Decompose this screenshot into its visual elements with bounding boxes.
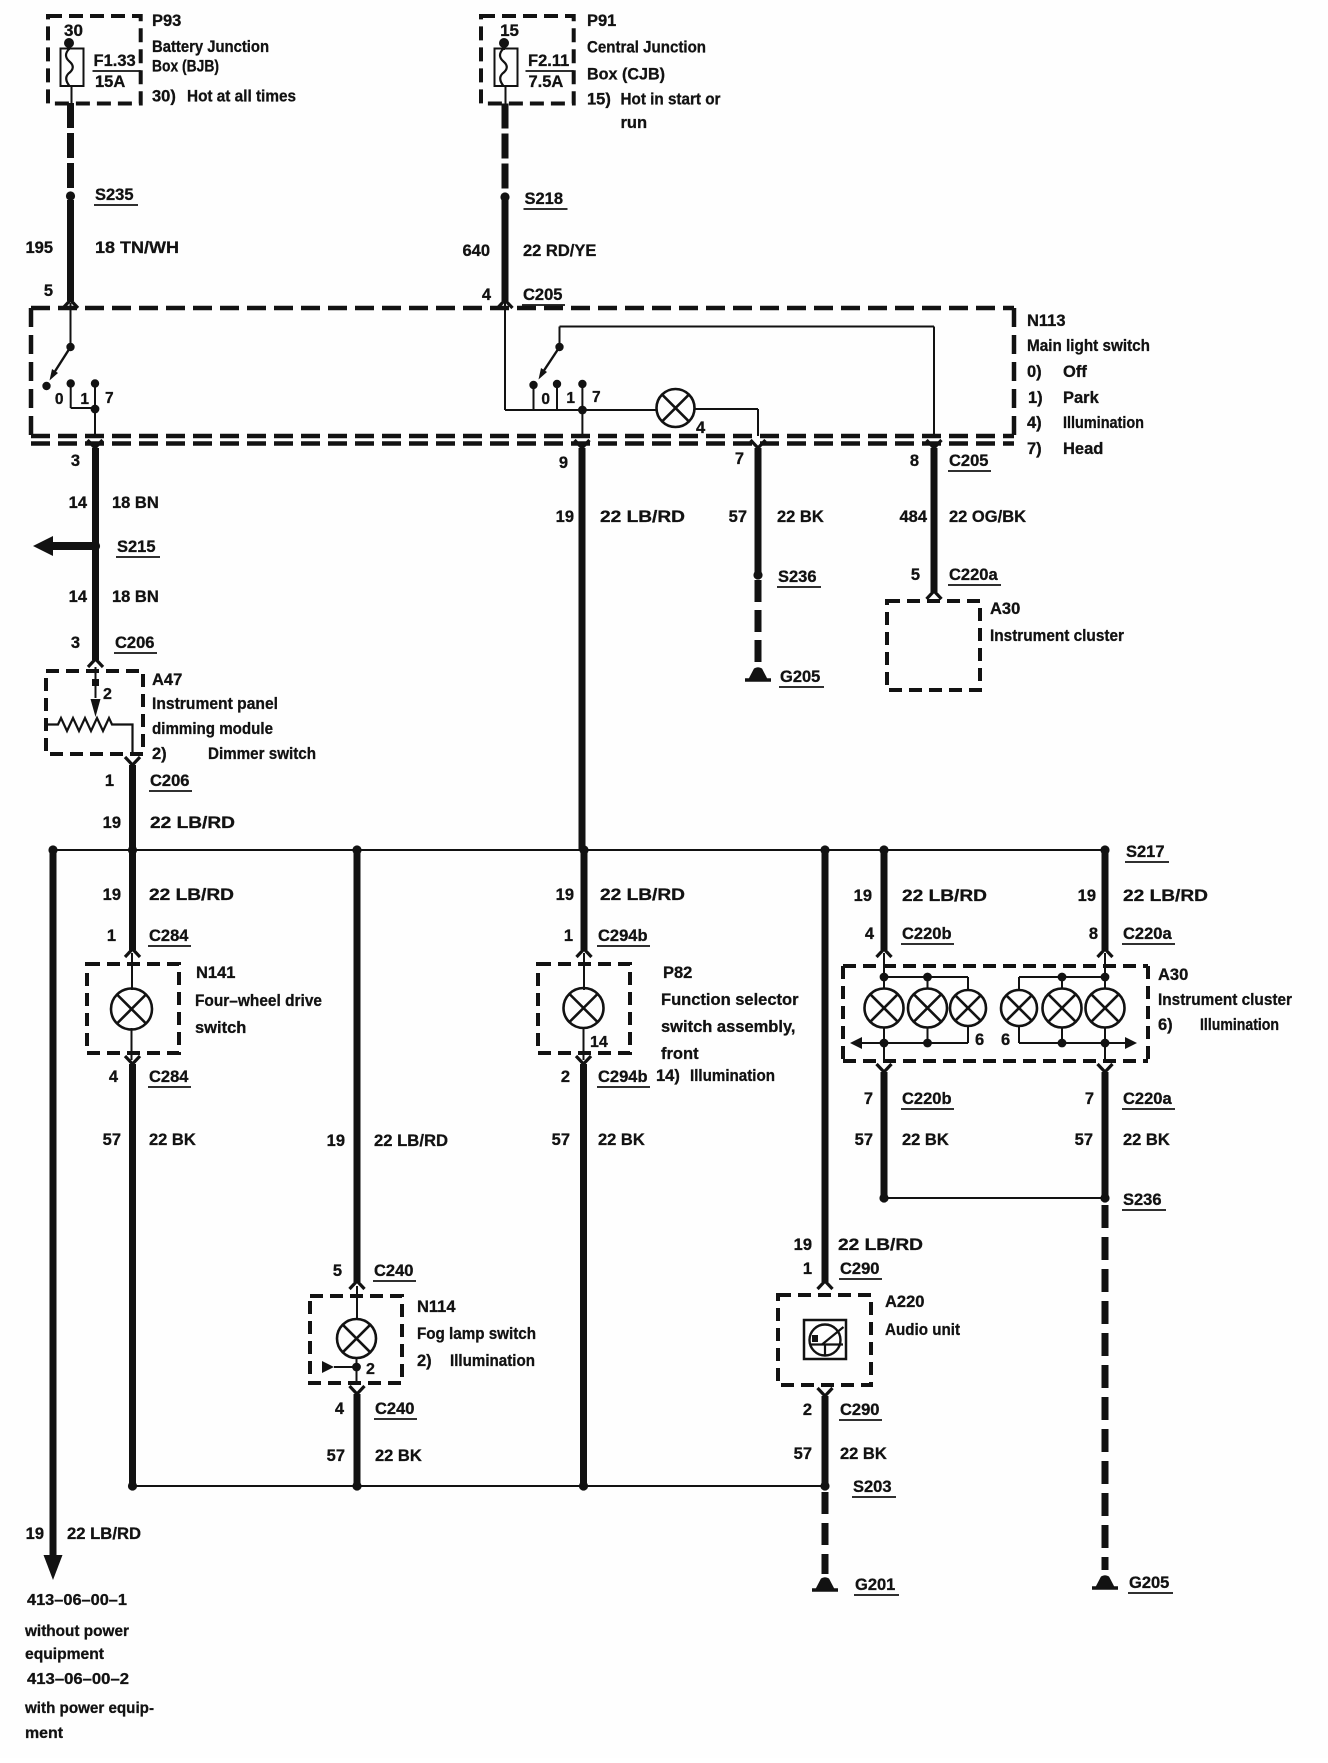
connector C284 label (top) — [148, 927, 191, 946]
wire: A30 pin 7 C220b to S236 (57 22 BK) — [881, 1072, 888, 1198]
wire label 57 22 BK (C220b) — [855, 1131, 949, 1149]
switch blade (left, headlamp switch pole 1) — [50, 347, 71, 381]
svg-text:19: 19 — [327, 1132, 345, 1150]
wire: blade common to N113 pin 8 — [560, 327, 935, 437]
junction: bus to P82 branch — [579, 845, 588, 854]
svg-text:22 LB/RD: 22 LB/RD — [600, 886, 685, 904]
wire: fuse F2.11 to N113 pin 4 (640 22 RD/YE) — [498, 104, 513, 309]
pin 9 exit connector — [559, 440, 590, 472]
wire: bus to A220 (19 22 LB/RD) — [818, 850, 833, 1289]
svg-text:22 BK: 22 BK — [902, 1131, 949, 1149]
svg-text:22 BK: 22 BK — [149, 1131, 196, 1149]
wire: S236 to ground G205 (dashed) — [755, 580, 762, 662]
splice S217 — [1100, 845, 1109, 854]
svg-text:22 BK: 22 BK — [840, 1445, 887, 1463]
svg-text:18 BN: 18 BN — [112, 588, 159, 606]
node pin 2 with arrow (N114) — [322, 1361, 375, 1378]
wire: bus to A30 pin 8 (19 22 LB/RD) — [1098, 850, 1113, 957]
svg-text:A220: A220 — [885, 1293, 924, 1311]
svg-text:14: 14 — [69, 494, 88, 512]
svg-text:Central Junction: Central Junction — [587, 39, 706, 57]
connector C220b label (bottom) — [901, 1090, 954, 1109]
svg-text:7: 7 — [864, 1090, 873, 1108]
wire label 19 22 LB/RD (N141) — [103, 886, 234, 904]
label A47 Instrument panel dimming module — [152, 671, 316, 763]
svg-text:A47: A47 — [152, 671, 182, 689]
svg-text:9: 9 — [559, 454, 568, 472]
wire: lamp 4 to N113 pin 7 — [695, 409, 759, 436]
wire label 57 22 BK (N114) — [327, 1447, 422, 1465]
wire: bus to N114 (19 22 LB/RD) — [350, 850, 365, 1289]
wire: S236 to ground G205 (dashed, lower) — [1102, 1205, 1109, 1570]
contact 1 (left switch) — [67, 379, 90, 408]
ground G205 (lower) — [1092, 1575, 1118, 1588]
svg-text:7: 7 — [105, 390, 114, 407]
svg-text:with power equip-: with power equip- — [24, 1700, 154, 1717]
svg-text:1: 1 — [105, 772, 114, 790]
svg-text:19: 19 — [103, 886, 121, 904]
connector C290 exit (pin 2) — [803, 1388, 833, 1419]
lamp (N114 illumination) — [337, 1286, 376, 1383]
wire label 57 22 BK (N141) — [103, 1131, 196, 1149]
wire: N113 pin 3 to A47 (14 18 BN) — [92, 448, 99, 660]
splice S236 (upper) — [753, 570, 762, 579]
wire label 57 22 BK (pin 7) — [729, 508, 824, 526]
label A30 Instrument cluster illumination — [1158, 966, 1293, 1034]
svg-text:14: 14 — [69, 588, 88, 606]
svg-text:A30: A30 — [1158, 966, 1188, 984]
svg-text:4: 4 — [696, 419, 706, 437]
svg-text:C290: C290 — [840, 1401, 879, 1419]
svg-text:Park: Park — [1063, 389, 1100, 407]
label N113 Main light switch positions — [1027, 312, 1150, 458]
svg-text:4: 4 — [482, 286, 492, 304]
svg-text:2: 2 — [366, 1361, 375, 1378]
connector C284 exit (pin 4) — [109, 1056, 140, 1086]
bus wire: splice S217 distribution — [53, 849, 1105, 851]
pin 30 terminal — [64, 21, 83, 48]
connector C205 label (pin 4) — [522, 286, 565, 305]
svg-text:Illumination: Illumination — [1063, 414, 1144, 432]
svg-text:3: 3 — [71, 452, 80, 470]
contact 0 (left switch) — [42, 382, 63, 408]
svg-text:Head: Head — [1063, 440, 1103, 458]
wire label 57 22 BK (A220) — [794, 1445, 887, 1463]
connector C294b label (top) — [597, 927, 650, 946]
junction: bus to A220 branch — [820, 845, 829, 854]
svg-text:Main light switch: Main light switch — [1027, 337, 1150, 355]
potentiometer wiper arrow (pin 2) — [91, 667, 113, 717]
splice S235 — [66, 191, 75, 200]
svg-text:1: 1 — [564, 927, 573, 945]
contact 0 (right switch) — [529, 381, 550, 410]
svg-text:640: 640 — [462, 242, 490, 260]
svg-text:dimming module: dimming module — [152, 720, 273, 738]
cluster lamp 6 — [1086, 989, 1125, 1028]
main light switch N113 (dashed box) — [31, 308, 1014, 444]
wire label 14 18 BN (upper) — [69, 494, 159, 512]
pin 7 label (C220b) — [864, 1090, 873, 1108]
label P93 Battery Junction Box — [152, 12, 296, 106]
wire: A47 pin 1 to splice S217 bus (19 22 LB/RD) — [129, 765, 136, 850]
svg-text:22 RD/YE: 22 RD/YE — [523, 242, 596, 260]
connector C220a label (bottom box) — [1122, 925, 1175, 944]
svg-text:413–06–00–1: 413–06–00–1 — [27, 1592, 127, 1609]
svg-text:G201: G201 — [855, 1576, 895, 1594]
pin 15 terminal — [499, 21, 519, 48]
pin 8 label (C220a) — [1089, 925, 1098, 943]
svg-text:C220b: C220b — [902, 1090, 952, 1108]
svg-text:C206: C206 — [150, 772, 189, 790]
svg-text:22 LB/RD: 22 LB/RD — [902, 887, 987, 905]
svg-text:7): 7) — [1027, 440, 1042, 458]
svg-text:Four–wheel drive: Four–wheel drive — [195, 992, 322, 1010]
connector C294b exit (pin 2) — [561, 1056, 591, 1086]
svg-text:Hot at all times: Hot at all times — [187, 88, 296, 106]
connector C290 label (top) — [839, 1260, 882, 1279]
svg-text:30: 30 — [64, 21, 83, 40]
wire: N113 pin 8 to A30 (484 22 OG/BK) — [927, 448, 942, 599]
svg-text:22 LB/RD: 22 LB/RD — [838, 1236, 923, 1254]
ground G205 (upper) — [745, 667, 771, 680]
junction: N141 ground at bus — [128, 1481, 137, 1490]
wire: S236 tie line — [879, 1193, 1105, 1202]
wire: N113 pin 4 feed rail — [505, 301, 657, 410]
svg-text:57: 57 — [794, 1445, 812, 1463]
connector C240 label (top) — [373, 1262, 416, 1281]
wire: cluster lamps 1-3 return rail with arrow — [850, 1026, 968, 1049]
wire label 57 22 BK (C220a) — [1075, 1131, 1170, 1149]
svg-text:F1.33: F1.33 — [94, 52, 136, 70]
svg-text:8: 8 — [910, 452, 919, 470]
function selector switch P82 (dashed box) — [538, 964, 630, 1053]
svg-text:19: 19 — [556, 508, 574, 526]
label 6 (right lamp group) — [1001, 1031, 1010, 1049]
wire: bus to P82 (19 22 LB/RD) — [577, 850, 592, 957]
wire label 19 22 LB/RD (P82) — [556, 886, 685, 904]
svg-text:22 LB/RD: 22 LB/RD — [67, 1525, 141, 1543]
svg-text:C290: C290 — [840, 1260, 879, 1278]
svg-text:22 LB/RD: 22 LB/RD — [374, 1132, 448, 1150]
instrument cluster A30 (bottom dashed box) — [843, 966, 1148, 1061]
lamp 4 (N113 internal illumination) — [657, 389, 707, 437]
label N141 Four-wheel drive switch — [195, 964, 322, 1037]
label S217 — [1125, 843, 1169, 862]
svg-text:C220a: C220a — [949, 566, 998, 584]
svg-text:Illumination: Illumination — [690, 1067, 775, 1085]
svg-text:N114: N114 — [417, 1298, 456, 1316]
wire: N113 pin 7 to S236 (57 22 BK) — [755, 448, 762, 575]
svg-text:22 BK: 22 BK — [598, 1131, 645, 1149]
connector C205 label (pin 8) — [948, 452, 991, 471]
wire label 19 22 LB/RD (leftmost) — [26, 1525, 141, 1543]
label S236 (lower) — [1122, 1191, 1166, 1210]
pin 5 label (C220a) — [911, 566, 920, 584]
svg-text:S215: S215 — [117, 538, 156, 556]
svg-text:2: 2 — [561, 1068, 570, 1086]
label destination 413-06-00-1/2 — [24, 1592, 154, 1742]
svg-text:C220a: C220a — [1123, 1090, 1172, 1108]
svg-text:Box (CJB): Box (CJB) — [587, 66, 665, 84]
svg-text:19: 19 — [794, 1236, 812, 1254]
svg-text:7: 7 — [1085, 1090, 1094, 1108]
wire: C220b feed rail (cluster lamps 1-3) — [880, 953, 968, 990]
svg-text:C206: C206 — [115, 634, 154, 652]
svg-text:4: 4 — [109, 1068, 119, 1086]
svg-text:484: 484 — [899, 508, 927, 526]
svg-text:19: 19 — [854, 887, 872, 905]
svg-text:Illumination: Illumination — [1200, 1016, 1279, 1034]
junction: bus to A47/N141 branch — [128, 845, 137, 854]
contact 1 (right switch) — [553, 380, 576, 410]
wire label 57 22 BK (P82) — [552, 1131, 645, 1149]
svg-text:413–06–00–2: 413–06–00–2 — [27, 1671, 129, 1688]
svg-text:P93: P93 — [152, 12, 181, 30]
svg-text:Instrument cluster: Instrument cluster — [990, 627, 1125, 645]
connector C240 exit (pin 4) — [335, 1386, 365, 1418]
connector C206 label (into A47) — [114, 634, 157, 653]
svg-text:Fog lamp switch: Fog lamp switch — [417, 1325, 536, 1343]
pin 4 label — [482, 286, 492, 304]
svg-text:equipment: equipment — [25, 1646, 105, 1663]
svg-text:P91: P91 — [587, 12, 616, 30]
connector C240 label (bottom) — [374, 1400, 417, 1419]
svg-text:switch: switch — [195, 1019, 246, 1037]
wire: contact 1-7 bridge to pin 3 — [71, 405, 100, 414]
label P91 Central Junction Box — [587, 12, 721, 132]
pin 1 label (C290) — [803, 1260, 812, 1278]
connector C220b label (top) — [901, 925, 954, 944]
wire label 19 22 LB/RD (C220b) — [854, 887, 987, 905]
svg-text:Audio unit: Audio unit — [885, 1321, 960, 1339]
svg-text:14): 14) — [656, 1067, 680, 1085]
wire: N114 pin 4 to ground bus (57 22 BK) — [354, 1394, 361, 1486]
wire: N113 pin 9 to bus (19 22 LB/RD) — [579, 448, 586, 850]
pin 7 exit connector — [735, 440, 766, 468]
label S236 (upper) — [777, 568, 821, 587]
svg-text:2: 2 — [103, 686, 112, 703]
dimming module A47 (dashed box) — [46, 671, 143, 754]
wire label 19 22 LB/RD (pin 9) — [556, 508, 685, 526]
label G205 (upper) — [779, 668, 824, 687]
svg-text:22 BK: 22 BK — [375, 1447, 422, 1465]
label S235 — [94, 186, 138, 205]
wire label 19 22 LB/RD (A220) — [794, 1236, 923, 1254]
label S215 — [116, 538, 160, 557]
wire: cluster lamps 4-6 return rail with arrow — [1019, 1026, 1137, 1049]
wire: S203 to ground G201 (dashed) — [822, 1492, 829, 1574]
label 6 (left lamp group) — [975, 1031, 984, 1049]
cluster lamp 3 — [950, 990, 986, 1026]
svg-text:5: 5 — [333, 1262, 342, 1280]
svg-text:0: 0 — [541, 391, 550, 408]
wire label 14 18 BN (lower) — [69, 588, 159, 606]
svg-text:22 OG/BK: 22 OG/BK — [949, 508, 1026, 526]
svg-text:6): 6) — [1158, 1016, 1173, 1034]
wire: N141 pin 4 to ground bus (57 22 BK) — [129, 1064, 136, 1486]
cluster lamp 1 — [865, 989, 904, 1028]
wire: bus to N141 (19 22 LB/RD) — [125, 850, 140, 957]
wire label 195 18 TN/WH — [25, 239, 179, 257]
svg-text:19: 19 — [1078, 887, 1096, 905]
svg-text:22 LB/RD: 22 LB/RD — [600, 508, 685, 526]
junction: N114 ground at bus — [352, 1481, 361, 1490]
svg-text:22 LB/RD: 22 LB/RD — [150, 814, 235, 832]
label F2.11 / 7.5A — [528, 52, 569, 91]
svg-text:8: 8 — [1089, 925, 1098, 943]
splice S215 with off-page arrow — [33, 536, 100, 556]
wire: fuse F1.33 to N113 pin 5 (195 18 TN/WH) — [63, 103, 78, 308]
svg-text:57: 57 — [103, 1131, 121, 1149]
svg-text:57: 57 — [729, 508, 747, 526]
label N114 Fog lamp switch — [417, 1298, 536, 1370]
wire label 640 22 RD/YE — [462, 242, 596, 260]
wire: A30 pin 7 C220a to S236 (57 22 BK) — [1102, 1072, 1109, 1198]
svg-text:S203: S203 — [853, 1478, 892, 1496]
wire label 484 22 OG/BK — [899, 508, 1026, 526]
svg-text:1: 1 — [566, 390, 575, 407]
svg-text:14: 14 — [590, 1034, 608, 1051]
svg-text:A30: A30 — [990, 600, 1020, 618]
svg-text:22 LB/RD: 22 LB/RD — [149, 886, 234, 904]
fuse F1.33 15A — [61, 47, 84, 103]
splice S218 — [500, 192, 509, 201]
connector C294b label (bottom) — [597, 1068, 650, 1087]
svg-text:C220b: C220b — [902, 925, 952, 943]
svg-text:C240: C240 — [374, 1262, 413, 1280]
fuse F2.11 7.5A — [495, 47, 518, 104]
connector C290 label (bottom) — [839, 1401, 882, 1420]
pin 1 label (C284) — [107, 927, 116, 945]
svg-text:22 BK: 22 BK — [777, 508, 824, 526]
svg-text:C294b: C294b — [598, 1068, 648, 1086]
fuse box P91 (Central Junction Box) — [481, 16, 574, 104]
connector C220a exit (pin 7) — [1098, 1043, 1113, 1072]
svg-text:G205: G205 — [1129, 1574, 1169, 1592]
svg-text:195: 195 — [25, 239, 53, 257]
svg-text:0: 0 — [55, 391, 64, 408]
svg-text:S235: S235 — [95, 186, 134, 204]
svg-text:1): 1) — [1028, 389, 1043, 407]
svg-text:run: run — [621, 114, 648, 132]
junction: P82 ground at bus — [579, 1481, 588, 1490]
svg-text:57: 57 — [855, 1131, 873, 1149]
connector C220a label (top) — [948, 566, 1001, 585]
junction: bus to N114 branch — [352, 845, 361, 854]
instrument cluster A30 (top dashed box) — [887, 601, 980, 690]
ground bus wire to S203 — [133, 1485, 826, 1487]
pin 3 label (C206) — [71, 634, 80, 652]
junction: bus to left branch — [48, 845, 57, 854]
pin 4 label (C220b) — [865, 925, 875, 943]
svg-text:front: front — [661, 1045, 699, 1063]
svg-text:0): 0) — [1027, 363, 1042, 381]
switch blade (right, dimmer feed pole) — [539, 343, 564, 380]
svg-text:Instrument cluster: Instrument cluster — [1158, 991, 1293, 1009]
svg-text:30): 30) — [152, 88, 176, 106]
svg-text:switch assembly,: switch assembly, — [661, 1018, 796, 1036]
four-wheel drive switch N141 (dashed box) — [87, 964, 179, 1053]
label A220 Audio unit — [885, 1293, 960, 1339]
svg-text:1: 1 — [803, 1260, 812, 1278]
svg-text:S236: S236 — [778, 568, 817, 586]
svg-text:5: 5 — [911, 566, 920, 584]
audio unit icon (A220) — [804, 1320, 846, 1359]
connector C206 label (below A47) — [149, 772, 192, 791]
svg-text:ment: ment — [25, 1725, 64, 1742]
wire: bus to off-page 413-06-00 (19 22 LB/RD) — [50, 850, 57, 1556]
node: N113 pin 5 feed / pivot — [66, 303, 74, 351]
label F1.33 / 15A — [94, 52, 136, 91]
pin 7 label (C220a) — [1085, 1090, 1094, 1108]
svg-text:57: 57 — [327, 1447, 345, 1465]
label S218 — [524, 190, 568, 209]
svg-text:22 BK: 22 BK — [1123, 1131, 1170, 1149]
lamp 14 (P82 illumination) — [564, 953, 608, 1060]
svg-text:57: 57 — [1075, 1131, 1093, 1149]
svg-text:C205: C205 — [523, 286, 562, 304]
fog lamp switch N114 (dashed box) — [310, 1296, 402, 1383]
splice S203 — [820, 1481, 829, 1490]
connector C284 label (bottom) — [148, 1068, 191, 1087]
wire: C220a feed rail (cluster lamps 4-6) — [1019, 953, 1109, 990]
svg-text:S217: S217 — [1126, 843, 1165, 861]
svg-text:C294b: C294b — [598, 927, 648, 945]
cluster lamp 5 — [1043, 989, 1082, 1028]
svg-text:Battery Junction: Battery Junction — [152, 38, 269, 56]
svg-text:15): 15) — [587, 91, 611, 109]
svg-text:S218: S218 — [525, 190, 564, 208]
pin 3 exit connector — [71, 440, 103, 470]
lamp (N141 illumination) — [111, 953, 152, 1060]
label P82 Function selector switch assembly — [656, 964, 799, 1085]
svg-text:7: 7 — [735, 450, 744, 468]
svg-text:P82: P82 — [663, 964, 692, 982]
svg-text:57: 57 — [552, 1131, 570, 1149]
resistor (dimmer rheostat) in A47 — [46, 718, 133, 754]
svg-text:C240: C240 — [375, 1400, 414, 1418]
svg-text:C205: C205 — [949, 452, 988, 470]
wire: A220 pin 2 to S203 (57 22 BK) — [822, 1396, 829, 1486]
pin 5 label — [44, 282, 53, 300]
svg-text:Dimmer switch: Dimmer switch — [208, 745, 316, 763]
svg-text:4: 4 — [335, 1400, 345, 1418]
ground G201 — [812, 1577, 838, 1590]
svg-text:2): 2) — [417, 1352, 432, 1370]
svg-text:Hot in start or: Hot in start or — [621, 91, 722, 109]
cluster lamp 4 — [1001, 990, 1037, 1026]
svg-text:C220a: C220a — [1123, 925, 1172, 943]
svg-text:2): 2) — [152, 745, 167, 763]
svg-text:19: 19 — [556, 886, 574, 904]
svg-text:without power: without power — [24, 1623, 129, 1640]
junction: bus to C220b branch — [879, 845, 888, 854]
contact 7 (right switch) to pin 9 — [578, 380, 601, 436]
pin 8 exit connector — [910, 440, 942, 470]
svg-text:1: 1 — [107, 927, 116, 945]
wire label 19 22 LB/RD (C220a) — [1078, 887, 1208, 905]
wire: bus to A30 pin 4 (19 22 LB/RD) — [877, 850, 892, 957]
svg-text:Box (BJB): Box (BJB) — [152, 58, 219, 76]
svg-text:Instrument panel: Instrument panel — [152, 695, 278, 713]
svg-text:2: 2 — [803, 1401, 812, 1419]
svg-text:Function selector: Function selector — [661, 991, 799, 1009]
label A30 Instrument cluster (top) — [990, 600, 1125, 645]
label G201 — [854, 1576, 899, 1595]
contact 7 (left switch) — [91, 379, 114, 436]
wire label 19 22 LB/RD (A47 out) — [103, 814, 235, 832]
cluster lamp 2 — [908, 989, 947, 1028]
